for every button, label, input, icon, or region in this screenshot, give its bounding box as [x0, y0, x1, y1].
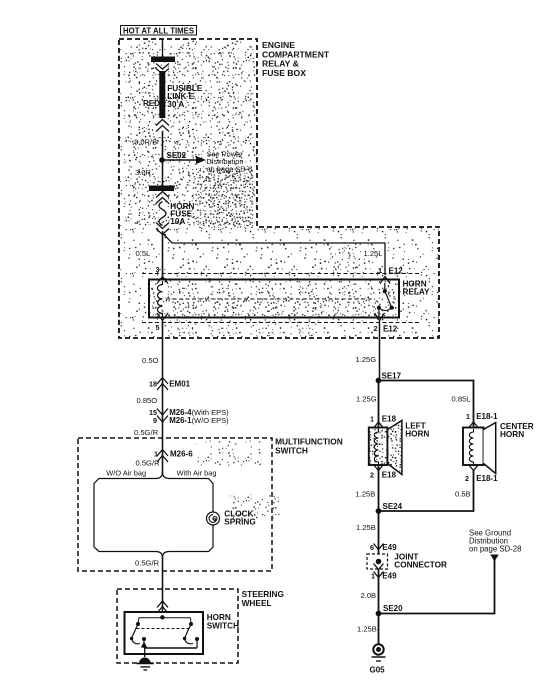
- svg-text:3: 3: [156, 265, 160, 274]
- svg-text:E49: E49: [382, 543, 397, 552]
- svg-text:1.25B: 1.25B: [357, 625, 377, 634]
- svg-text:9: 9: [153, 416, 157, 425]
- svg-text:1: 1: [370, 415, 374, 424]
- svg-text:WHEEL: WHEEL: [242, 598, 272, 608]
- svg-text:HOT AT ALL TIMES: HOT AT ALL TIMES: [123, 27, 194, 36]
- svg-text:E18: E18: [382, 471, 397, 480]
- svg-text:E18-1: E18-1: [476, 412, 498, 421]
- svg-text:SE20: SE20: [383, 604, 403, 613]
- svg-text:0.5G/R: 0.5G/R: [135, 559, 160, 568]
- svg-text:1: 1: [154, 450, 158, 459]
- svg-text:E18-1: E18-1: [476, 474, 498, 483]
- svg-text:E18: E18: [382, 415, 397, 424]
- svg-text:1: 1: [371, 572, 375, 581]
- svg-text:SWITCH: SWITCH: [207, 622, 239, 631]
- svg-text:1.25B: 1.25B: [356, 490, 376, 499]
- svg-text:EM01: EM01: [169, 380, 190, 389]
- svg-text:0.5G/R: 0.5G/R: [136, 459, 161, 468]
- svg-text:2: 2: [374, 324, 378, 333]
- svg-text:SWITCH: SWITCH: [275, 446, 308, 456]
- svg-text:SE24: SE24: [383, 502, 403, 511]
- svg-text:SE02: SE02: [167, 151, 187, 160]
- svg-text:FUSE BOX: FUSE BOX: [262, 68, 306, 78]
- svg-text:CONNECTOR: CONNECTOR: [394, 561, 447, 570]
- svg-text:0.5G/R: 0.5G/R: [134, 428, 159, 437]
- svg-text:RED: RED: [143, 99, 160, 108]
- svg-text:SE17: SE17: [382, 372, 402, 381]
- svg-text:5: 5: [156, 323, 160, 332]
- svg-text:18: 18: [149, 380, 157, 389]
- svg-text:6: 6: [370, 543, 374, 552]
- svg-text:M26-1(W/O EPS): M26-1(W/O EPS): [169, 416, 229, 425]
- svg-text:1: 1: [378, 266, 382, 275]
- svg-text:W/O Air bag: W/O Air bag: [106, 469, 146, 478]
- svg-text:0.5L: 0.5L: [136, 249, 151, 258]
- svg-text:M26-6: M26-6: [170, 450, 193, 459]
- svg-text:30 A: 30 A: [167, 100, 184, 109]
- svg-text:With Air bag: With Air bag: [177, 469, 217, 478]
- svg-text:HORN: HORN: [500, 430, 524, 439]
- svg-text:E12: E12: [389, 267, 404, 276]
- svg-text:1.25L: 1.25L: [364, 249, 383, 258]
- svg-text:E49: E49: [382, 572, 397, 581]
- svg-text:RELAY: RELAY: [403, 288, 431, 297]
- svg-text:on page SD-8: on page SD-8: [207, 165, 253, 174]
- svg-text:1: 1: [466, 412, 470, 421]
- svg-text:2: 2: [370, 471, 374, 480]
- svg-text:1.25B: 1.25B: [356, 523, 376, 532]
- svg-text:HORN: HORN: [405, 430, 429, 439]
- svg-text:10A: 10A: [170, 217, 185, 226]
- svg-text:1.25G: 1.25G: [356, 395, 377, 404]
- svg-text:2: 2: [465, 474, 469, 483]
- svg-text:G05: G05: [370, 666, 386, 675]
- svg-text:3.0R/B: 3.0R/B: [134, 138, 157, 147]
- svg-text:0.5B: 0.5B: [455, 490, 471, 499]
- svg-text:1.25G: 1.25G: [356, 355, 377, 364]
- svg-text:SPRING: SPRING: [224, 518, 255, 527]
- svg-text:0.85L: 0.85L: [452, 395, 471, 404]
- svg-text:0.85O: 0.85O: [137, 396, 158, 405]
- svg-text:E12: E12: [383, 325, 398, 334]
- svg-text:3.0R: 3.0R: [135, 168, 152, 177]
- svg-text:0.5O: 0.5O: [142, 356, 159, 365]
- svg-text:2.0B: 2.0B: [361, 591, 377, 600]
- svg-text:on page SD-28: on page SD-28: [469, 545, 521, 554]
